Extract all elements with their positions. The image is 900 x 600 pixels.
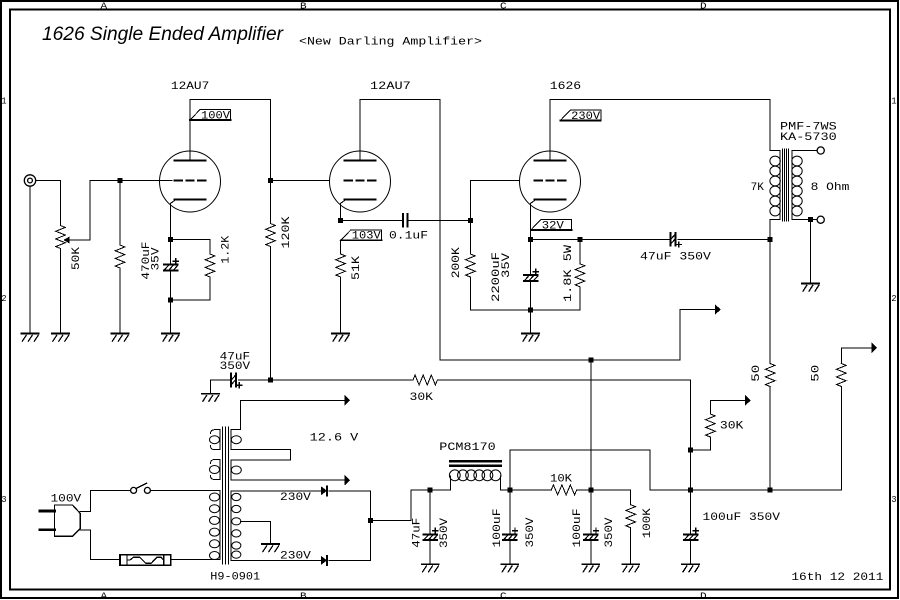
ground (speaker return)	[802, 284, 819, 292]
label 100V (AC mains)	[51, 494, 82, 506]
junction node G1	[118, 178, 123, 183]
triode V3 1626 envelope	[520, 151, 581, 212]
label 8 Ohm	[811, 182, 850, 194]
svg-text:PCM8170: PCM8170	[439, 442, 495, 454]
wire secondary to ground	[810, 220, 812, 283]
svg-text:200K: 200K	[451, 247, 463, 278]
border column label B (bottom)	[300, 591, 307, 600]
svg-text:H9-0901: H9-0901	[210, 572, 260, 584]
T1 HV secondary winding 230V-0-230V	[231, 491, 241, 561]
svg-text:35V: 35V	[501, 253, 513, 278]
ground (decoupling cap)	[202, 394, 219, 402]
label 50K	[71, 247, 83, 270]
border row label 2 (right)	[891, 293, 896, 304]
label 120K	[281, 216, 293, 248]
svg-text:1626: 1626	[550, 81, 581, 93]
wire HV top to diode D1	[240, 490, 321, 492]
label PCM8170	[439, 442, 495, 454]
svg-text:KA-5730: KA-5730	[780, 132, 837, 144]
label 12.6 V	[310, 432, 359, 444]
label 50 (left)	[751, 365, 763, 382]
wire pot bottom to ground	[60, 249, 62, 334]
junction V2 cathode node K2	[338, 218, 343, 223]
wire fuse to transformer primary	[171, 559, 220, 561]
schematic subtitle	[299, 36, 482, 48]
capacitor 100uF 350V (third filter)	[584, 528, 599, 540]
svg-text:1: 1	[1, 96, 6, 107]
wire F3 to 100uF	[590, 490, 592, 534]
svg-text:12.6 V: 12.6 V	[310, 432, 359, 444]
svg-text:30K: 30K	[720, 421, 744, 433]
border row label 3 (left)	[1, 494, 6, 505]
junction rectifier output	[368, 518, 373, 523]
wire jack sleeve to ground	[29, 186, 31, 333]
junction 1.8K top	[578, 237, 583, 242]
svg-text:16th 12 2011: 16th 12 2011	[791, 572, 883, 584]
label 200K	[451, 247, 463, 278]
wire coupling cap to node G3	[409, 219, 471, 221]
svg-text:350V: 350V	[439, 518, 451, 548]
svg-text:D: D	[700, 1, 707, 12]
junction V1 cathode node K1	[168, 237, 173, 242]
svg-text:2: 2	[1, 293, 6, 304]
V2 cathode lead	[341, 201, 345, 221]
svg-text:B: B	[300, 1, 307, 12]
svg-text:47uF: 47uF	[411, 518, 423, 548]
wire 10K output riser to V2 rail	[590, 360, 592, 490]
power transformer T1 primary winding 100V	[210, 490, 220, 559]
ground (100K bleeder)	[622, 564, 639, 572]
junction filter node F3	[588, 487, 593, 492]
wire grid resistor to ground	[119, 268, 121, 333]
resistor 30K dropping (horizontal)	[413, 375, 437, 385]
ground (input jack)	[22, 334, 39, 342]
wire 50 ohm to B+ row	[769, 387, 771, 491]
label 1.2K	[221, 235, 233, 263]
wire to 1.8K	[579, 239, 581, 263]
voltage flag 103V (V2 cathode)	[341, 230, 382, 243]
wire A1 down to B+ row	[690, 450, 692, 490]
svg-text:A: A	[101, 1, 108, 12]
wire 10K to node F3	[577, 489, 631, 491]
wire K3 to 1.8K	[531, 238, 580, 240]
wire D1 to rectifier node	[329, 491, 370, 561]
label 350V (decoupling)	[220, 361, 251, 373]
svg-text:230V: 230V	[280, 492, 311, 504]
junction rail to 10K riser	[588, 358, 593, 363]
wire K1 to 470uF	[170, 239, 172, 264]
output transformer T2 secondary winding	[792, 151, 817, 220]
wire P1 to V2 grid	[271, 180, 330, 182]
wire switch to transformer primary	[151, 489, 220, 491]
svg-text:1626 Single Ended Amplifier: 1626 Single Ended Amplifier	[42, 23, 284, 45]
wire 100uF to ground	[509, 540, 511, 564]
ground (100uF output filter)	[682, 564, 699, 572]
label 47uF (decoupling)	[220, 351, 251, 363]
wire K2 to 51K	[340, 240, 342, 254]
wire F2 to 100uF	[509, 490, 511, 534]
resistor 120K plate load	[266, 224, 276, 247]
svg-text:100V: 100V	[201, 110, 230, 122]
label 50 (right)	[811, 365, 823, 382]
wire 100K to ground	[630, 528, 632, 564]
svg-text:C: C	[500, 1, 507, 12]
label 100uF (third filter)	[572, 509, 584, 548]
label 1626 (V3)	[550, 81, 581, 93]
V3 cathode lead	[531, 201, 535, 240]
border row label 2 (left)	[1, 293, 6, 304]
capacitor 47uF 350V decoupling	[231, 374, 242, 388]
svg-text:50: 50	[751, 365, 763, 382]
svg-text:35V: 35V	[150, 247, 162, 270]
V3 1626 plate bar	[535, 160, 566, 162]
label 30K (horizontal)	[410, 392, 434, 404]
wire F1 to 47uF	[429, 490, 431, 534]
label 7K	[751, 182, 765, 194]
svg-text:230V: 230V	[571, 111, 600, 123]
svg-text:47uF 350V: 47uF 350V	[640, 252, 711, 264]
V2 12AU7 cathode bar	[345, 199, 376, 201]
label 2200uF	[491, 252, 503, 302]
junction node G3	[468, 218, 473, 223]
wire G3 to 200K	[469, 220, 471, 254]
wire rectifier to first filter cap	[370, 490, 430, 521]
wire D2 to rectifier node	[329, 559, 370, 561]
svg-text:100K: 100K	[642, 508, 654, 538]
svg-text:103V: 103V	[352, 231, 381, 243]
junction filter node F1	[428, 487, 433, 492]
resistor 100K bleeder	[626, 505, 636, 528]
svg-text:A: A	[101, 591, 108, 600]
output transformer T2 PMF-7WS primary winding	[770, 151, 780, 220]
label 47uF 350V (ultrapath)	[640, 252, 711, 264]
ground (V1 cathode)	[162, 334, 179, 342]
resistor 50 (B+ feed, right)	[837, 364, 847, 387]
label 12AU7 (V1)	[171, 81, 209, 93]
ground (V3 cathode)	[522, 334, 539, 342]
wire F1 to choke	[430, 489, 450, 491]
resistor R grid-leak	[115, 245, 125, 268]
wire K2 to coupling cap	[341, 219, 402, 221]
svg-text:100uF: 100uF	[572, 509, 584, 548]
label 30K (vertical)	[720, 421, 744, 433]
svg-text:3: 3	[891, 494, 896, 505]
border row label 1 (left)	[1, 96, 6, 107]
svg-text:<New Darling Amplifier>: <New Darling Amplifier>	[299, 36, 482, 48]
svg-text:100uF: 100uF	[492, 509, 504, 548]
border column label D (top)	[700, 1, 707, 12]
capacitor 47uF 350V (first filter)	[423, 528, 438, 540]
svg-text:120K: 120K	[281, 216, 293, 248]
ground (47uF filter)	[422, 564, 439, 572]
svg-text:1.8K 5W: 1.8K 5W	[563, 245, 575, 302]
V1 12AU7 cathode bar	[175, 199, 206, 201]
resistor 10K dropping	[551, 485, 576, 495]
ground (HV center tap)	[262, 544, 279, 552]
AC plug P1	[40, 505, 80, 536]
wire HV bottom to diode D2	[240, 559, 321, 561]
wire OPT primary bottom down (node B1)	[769, 220, 771, 364]
wire HV center tap to ground	[240, 521, 270, 543]
wire 47uF to ground	[429, 540, 431, 564]
triode V2 12AU7 envelope	[330, 151, 391, 212]
wire G3 to V3 grid	[470, 181, 519, 221]
potentiometer VR 50K (element)	[56, 226, 66, 249]
diode D1	[321, 486, 327, 495]
junction secondary ground tap	[808, 217, 813, 222]
label 47uF (filter)	[411, 518, 423, 548]
output terminal (secondary top)	[817, 147, 824, 154]
svg-text:32V: 32V	[542, 220, 564, 232]
wire plug to fuse	[80, 530, 120, 560]
wire decoupling node B2 to 30K	[238, 379, 413, 381]
wire heater winding series link	[236, 450, 290, 460]
wire K1 to 1.2K	[171, 239, 210, 254]
svg-text:B: B	[300, 591, 307, 600]
junction filter node F2	[507, 487, 512, 492]
V3 1626 grid (dashed)	[535, 180, 566, 182]
power switch SW1	[131, 483, 151, 493]
choke L1 PCM8170 winding	[449, 470, 501, 490]
svg-text:12AU7: 12AU7	[171, 81, 209, 93]
label KA-5730	[780, 132, 837, 144]
wire 470uF to ground	[170, 270, 172, 333]
wire right 50 ohm to B+ row	[691, 387, 842, 491]
wire G1 to grid resistor	[119, 181, 121, 246]
label 10K	[550, 474, 572, 486]
wire F2 to 10K	[510, 489, 552, 491]
V1 cathode lead	[171, 201, 175, 240]
label 100uF 350V	[703, 512, 781, 524]
label 51K	[351, 256, 363, 280]
ground (100uF filter)	[501, 564, 518, 572]
svg-text:10K: 10K	[550, 474, 572, 486]
junction K1 bottom	[168, 298, 173, 303]
border column label D (bottom)	[700, 591, 707, 600]
wire V1 plate to node P1	[190, 100, 271, 181]
wire 51K to ground	[340, 277, 342, 333]
resistor 200K grid leak	[466, 254, 476, 277]
wire A1 to 30K vertical	[691, 437, 711, 450]
voltage flag 230V (V3 plate)	[560, 110, 601, 123]
wire choke to node F2	[501, 489, 510, 491]
resistor 30K (to other channel)	[706, 414, 716, 437]
junction B+ row left	[768, 488, 773, 493]
T1 unused primary taps	[210, 430, 220, 480]
arrow rail to other channel	[680, 304, 721, 360]
svg-text:350V: 350V	[220, 361, 251, 373]
border row label 1 (right)	[891, 96, 896, 107]
wire ultrapath cap to B+ node	[678, 238, 770, 240]
wire 100uF to ground	[690, 540, 692, 564]
output transformer T2 core	[783, 149, 789, 221]
wire pot wiper riser	[69, 181, 90, 241]
label 230V (bottom)	[280, 550, 311, 562]
border column label A (bottom)	[101, 591, 108, 600]
capacitor 47uF 350V ultrapath	[671, 233, 682, 247]
svg-text:30K: 30K	[410, 392, 434, 404]
label 35V (2200uF)	[501, 253, 513, 278]
border column label B (top)	[300, 1, 307, 12]
label PMF-7WS	[780, 121, 837, 133]
wire plug to switch	[80, 490, 130, 511]
wire F3 to 100K bleeder	[630, 490, 632, 505]
wire choke-out riser to B+ row	[510, 450, 691, 490]
potentiometer 50K wiper arrow	[63, 237, 69, 244]
wire K3 to 2200uF	[530, 239, 532, 275]
wire 100uF to ground	[590, 540, 592, 564]
label 350V (filter)	[439, 518, 451, 548]
svg-text:C: C	[500, 591, 507, 600]
voltage flag 32V (V3 cathode)	[531, 220, 572, 233]
fuse F1	[120, 555, 171, 565]
svg-text:1: 1	[891, 96, 896, 107]
ground (100uF third filter)	[582, 564, 599, 572]
resistor 50 (B+ feed, left)	[765, 364, 775, 387]
wire V2 plate to B+ rail	[360, 100, 440, 361]
resistor 1.8K 5W cathode bias	[575, 264, 585, 287]
capacitor 470uF 35V cathode bypass	[164, 259, 179, 271]
resistor 51K cathode load	[336, 254, 346, 277]
svg-text:50K: 50K	[71, 247, 83, 270]
arrow 30K to other channel	[710, 395, 750, 414]
label 12AU7 (V2)	[370, 81, 411, 93]
svg-text:3: 3	[1, 494, 6, 505]
junction K3 bottom node	[528, 308, 533, 313]
schematic title	[42, 23, 284, 45]
junction node B1	[768, 237, 773, 242]
border column label A (top)	[101, 1, 108, 12]
resistor 1.2K cathode bias	[205, 254, 215, 277]
wire P1 to 120K plate load	[270, 181, 272, 224]
V1 12AU7 plate bar	[175, 160, 206, 162]
V2 12AU7 plate bar	[345, 160, 376, 162]
label 35V	[150, 247, 162, 270]
V1 12AU7 grid (dashed)	[175, 180, 206, 182]
svg-text:230V: 230V	[280, 550, 311, 562]
wire V2 plate rail (y=360)	[440, 359, 680, 361]
label 470uF	[141, 242, 153, 280]
wire 120K to B+ node B2	[270, 247, 272, 381]
svg-text:50: 50	[811, 365, 823, 382]
label 1.8K 5W	[563, 245, 575, 302]
junction node P1 (direct coupling)	[268, 178, 273, 183]
wire grid of V1 (node G1)	[90, 180, 172, 182]
ground (grid resistor)	[112, 334, 129, 342]
svg-text:2: 2	[891, 293, 896, 304]
date 16th 12 2011	[791, 572, 883, 584]
wire V3 plate to OPT primary	[550, 100, 770, 161]
wire 1.8K bottom	[531, 287, 580, 310]
svg-text:100V: 100V	[51, 494, 82, 506]
power transformer T1 core	[223, 427, 229, 564]
svg-text:D: D	[700, 591, 707, 600]
arrow to other channel B+ (right 50)	[841, 342, 877, 363]
border row label 3 (right)	[891, 494, 896, 505]
label 100K	[642, 508, 654, 538]
label 0.1uF	[389, 230, 428, 242]
svg-text:51K: 51K	[351, 256, 363, 280]
border column label C (top)	[500, 1, 507, 12]
choke L1 core bars	[450, 461, 501, 465]
svg-text:350V: 350V	[604, 517, 616, 547]
svg-text:7K: 7K	[751, 182, 765, 194]
svg-text:350V: 350V	[525, 517, 537, 547]
junction V3 cathode node K3	[528, 237, 533, 242]
arrow heater 12.6V to tubes	[240, 395, 350, 430]
ground (volume pot)	[52, 334, 69, 342]
label 100uF (second filter)	[492, 509, 504, 548]
junction B+ row node	[688, 488, 693, 493]
diode D2	[321, 556, 327, 565]
junction node B2	[268, 378, 273, 383]
triode V1 12AU7 envelope	[160, 151, 221, 212]
wire cap to ground stub	[209, 380, 211, 394]
wire to 100uF reservoir	[690, 490, 692, 534]
capacitor 100uF 350V (second filter)	[503, 528, 518, 540]
wire 200K to cathode bottom node	[470, 277, 530, 310]
V3 1626 cathode bar	[535, 199, 566, 201]
svg-text:0.1uF: 0.1uF	[389, 230, 428, 242]
T1 heater winding 12.6V	[231, 430, 241, 481]
label 350V (third filter)	[604, 517, 616, 547]
wire 1.2K bottom to K1 bottom	[171, 277, 210, 300]
output terminal (secondary bottom)	[817, 216, 824, 223]
wire 30K to main B+ node	[437, 380, 690, 450]
voltage flag 100V (V1 plate)	[190, 110, 231, 123]
capacitor 100uF 350V (output B+ filter)	[684, 528, 699, 540]
wire ground to 47uF 350V decoupling cap	[210, 379, 229, 381]
label 350V (second filter)	[525, 517, 537, 547]
arrow heater return	[234, 475, 350, 486]
svg-text:12AU7: 12AU7	[370, 81, 411, 93]
wire K3 node to 47uF ultrapath cap	[580, 238, 669, 240]
capacitor 2200uF 35V cathode bypass	[524, 269, 539, 281]
wire jack to volume pot top	[36, 181, 61, 226]
input jack J1	[24, 175, 35, 186]
junction main B+ node A1	[688, 447, 693, 452]
svg-text:1.2K: 1.2K	[221, 235, 233, 263]
border column label C (bottom)	[500, 591, 507, 600]
ground (51K)	[332, 334, 349, 342]
V2 12AU7 grid (dashed)	[345, 180, 376, 182]
svg-text:8 Ohm: 8 Ohm	[811, 182, 850, 194]
capacitor 0.1uF coupling	[403, 214, 408, 227]
wire 2200uF to ground	[530, 281, 532, 333]
svg-text:100uF 350V: 100uF 350V	[703, 512, 781, 524]
label 230V (top)	[280, 492, 311, 504]
label H9-0901	[210, 572, 260, 584]
